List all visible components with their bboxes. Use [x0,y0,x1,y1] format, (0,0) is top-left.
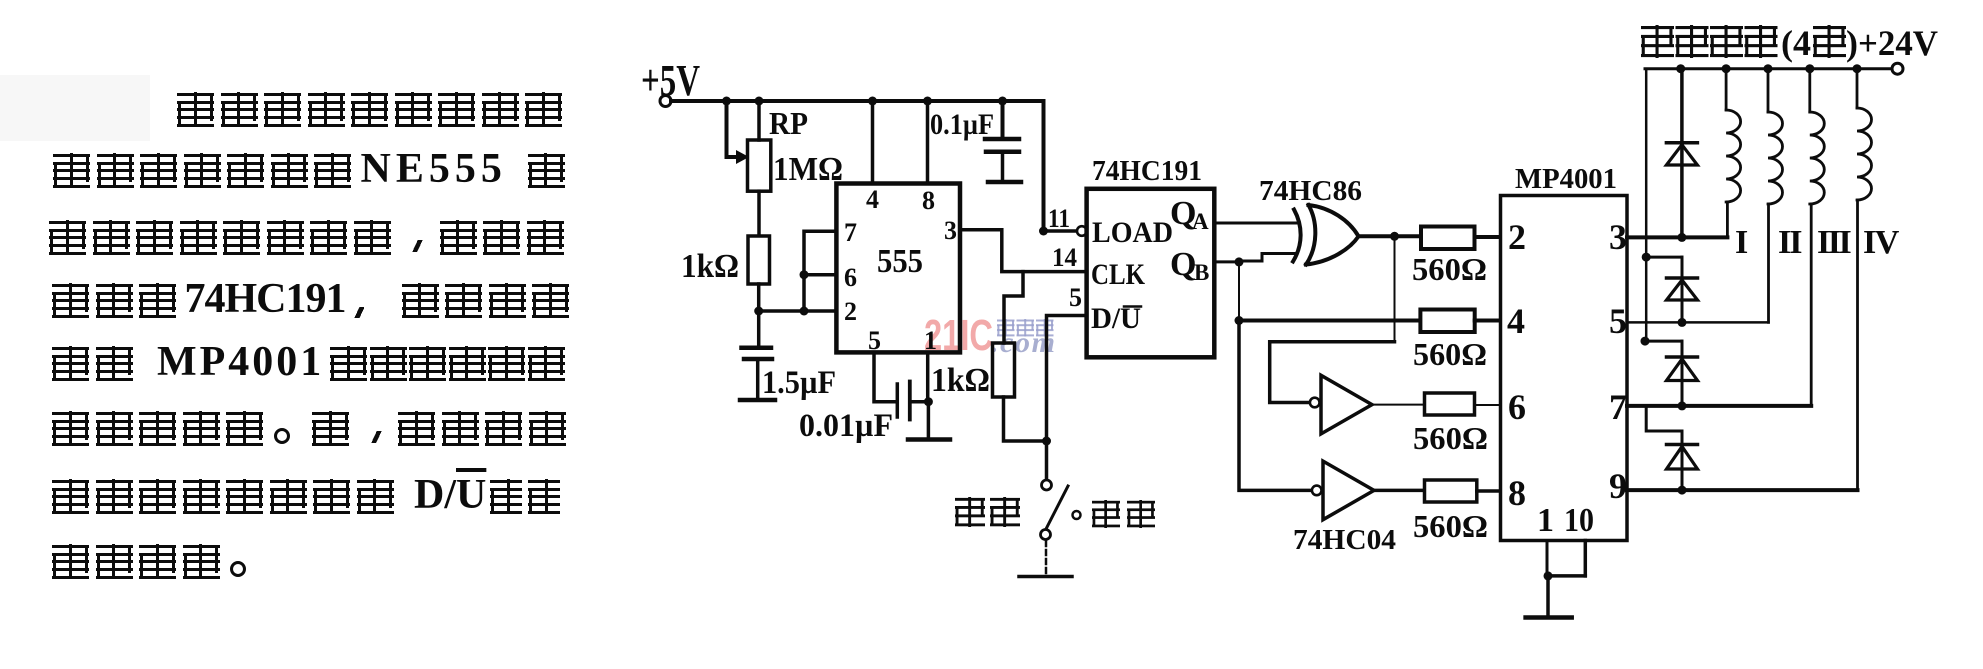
resistor 560Ω phase A [1421,227,1501,250]
svg-text:10: 10 [1564,502,1594,539]
wire 555 pin2 row [754,307,836,316]
resistor 1kΩ D/U [993,343,1015,397]
svg-text:14: 14 [1052,243,1077,272]
svg-text:1: 1 [1537,502,1554,539]
capacitor 1.5µF [742,311,773,398]
svg-text:3: 3 [1609,217,1627,257]
wire +24V rail [1645,64,1891,73]
text D/U [1091,302,1141,335]
diode D3 [1645,341,1698,406]
xor gate 74HC86 [1293,205,1359,265]
svg-text:8: 8 [922,186,935,215]
label 正转 [955,497,1020,527]
svg-text:IV: IV [1863,224,1900,261]
label 反转 [1092,500,1155,528]
svg-text:B: B [1194,260,1209,285]
svg-text:4: 4 [866,185,879,214]
wire branch to D/U resistor [1004,272,1023,343]
svg-text:11: 11 [1048,204,1070,233]
svg-text:7: 7 [844,218,857,247]
diode D1 [1666,69,1697,238]
svg-text:74HC191: 74HC191 [1092,155,1202,187]
wire QB row to 560 [1239,319,1420,323]
svg-text:CLK: CLK [1091,258,1146,291]
resistor 560Ω phase C [1425,393,1501,415]
svg-text:4: 4 [1507,301,1525,341]
ground MP4001 [1526,615,1572,620]
bubble LOAD active-low [1077,226,1087,236]
wire pin7-pin6 bracket [800,231,837,311]
resistor 1kΩ timing [748,236,770,311]
svg-text:5: 5 [1609,301,1627,341]
svg-text:I: I [1735,224,1748,261]
wire 555 pin5 [874,352,896,401]
resistor 560Ω phase B [1420,310,1500,333]
wire D/U pin5 [1047,316,1087,442]
svg-text:7: 7 [1609,387,1627,427]
diode D2 [1646,257,1697,322]
junction RP top [755,97,764,106]
wire phase IV row pin9 [1627,486,1858,495]
svg-text:Q: Q [1170,246,1196,283]
junction 555 pin8 [923,97,932,106]
wire QA output [1214,222,1297,225]
inverter 74HC04 A [1310,375,1372,434]
junction D/U node [1042,437,1051,446]
wire QB to inverter2 [1239,321,1312,491]
diode D4 [1646,406,1697,490]
svg-text:0.1µF: 0.1µF [930,108,994,141]
ground 1.5µF [740,398,775,403]
svg-text:III: III [1817,224,1851,261]
svg-text:9: 9 [1609,466,1627,506]
wire inverter1 out [1372,404,1425,406]
inductor coil IV [1857,69,1872,490]
label 步进电机(4相)+24V [1641,23,1938,63]
wire +5V rail [671,101,1044,231]
junction RP wiper [722,97,731,106]
wire QB output [1214,257,1243,266]
wire QB to XOR input [1239,254,1297,262]
wire phase I row pin3 [1627,233,1727,242]
wire XOR output [1359,232,1422,241]
svg-text:1kΩ: 1kΩ [681,248,739,285]
svg-text:2: 2 [844,297,857,326]
wire XOR out to inverter1 [1270,236,1395,402]
wire LOAD pin11 [1044,229,1078,233]
inductor coil II [1768,69,1783,323]
wire 555 pin1 [924,352,933,436]
capacitor 0.01µF [897,382,928,420]
wire phase III row pin7 [1627,401,1811,410]
svg-text:RP: RP [769,105,808,141]
text QA [1170,195,1209,234]
svg-text:8: 8 [1508,473,1526,513]
switch 正转/反转 [1041,441,1081,574]
resistor 560Ω phase D [1425,480,1501,502]
svg-text:): ) [1846,23,1858,63]
svg-text:0.01µF: 0.01µF [799,408,893,444]
ground switch [1019,575,1072,579]
wire QB down [1235,262,1244,325]
svg-text:2: 2 [1508,217,1526,257]
svg-text:+24V: +24V [1858,23,1938,63]
svg-text:560Ω: 560Ω [1413,508,1488,544]
junction 555 pin4 [868,97,877,106]
svg-text:74HC04: 74HC04 [1293,524,1396,556]
IC MP4001 driver [1501,196,1628,541]
IC 555 timer [836,184,960,353]
svg-text:6: 6 [1508,387,1526,427]
svg-text:A: A [1192,209,1209,234]
svg-text:560Ω: 560Ω [1412,251,1487,287]
ground 0.01µF [908,437,950,442]
wire phase II row pin5 [1627,318,1769,327]
inverter 74HC04 B [1312,461,1374,520]
wire 1kΩ to switch node [1004,397,1047,441]
wire MP4001 ground [1544,541,1586,617]
IC 74HC191 counter [1087,189,1215,357]
svg-text:560Ω: 560Ω [1413,336,1487,372]
svg-text:II: II [1778,224,1802,261]
potentiometer RP 1MΩ [727,101,771,236]
wire pin8 [926,101,930,184]
junction LOAD pull-up [1039,227,1048,236]
+5V supply terminal [641,56,700,107]
wire 555 pin3 to CLK [960,230,1087,272]
svg-text:3: 3 [944,216,957,245]
svg-text:560Ω: 560Ω [1413,420,1488,456]
wire pin4 [871,101,875,184]
svg-text:+5V: +5V [641,56,700,105]
svg-text:1MΩ: 1MΩ [773,151,843,188]
svg-text:1kΩ: 1kΩ [931,362,990,399]
capacitor 0.1µF [985,101,1019,180]
svg-text:74HC86: 74HC86 [1259,175,1362,207]
svg-text:5: 5 [1069,283,1082,312]
inductor coil III [1810,69,1825,406]
inductor coil I [1726,69,1741,238]
+24V terminal [1892,63,1903,74]
svg-text:555: 555 [877,243,923,280]
svg-text:1.5µF: 1.5µF [762,365,836,401]
wire +24V left drop [1641,69,1651,346]
svg-text:LOAD: LOAD [1092,216,1173,249]
wire inverter2 out [1374,489,1425,493]
svg-text:(4: (4 [1781,23,1811,63]
svg-text:6: 6 [844,263,857,292]
junction 0.1uF tap [998,97,1007,106]
text QB [1170,246,1209,285]
ground 0.1µF [988,180,1021,185]
svg-text:MP4001: MP4001 [1515,164,1617,195]
